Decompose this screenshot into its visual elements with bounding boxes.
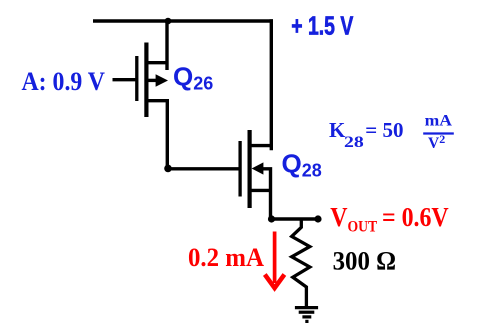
transistor Q28 (MOSFET) (240, 130, 271, 219)
node: junction of Q26 drain with rail (165, 18, 172, 25)
svg-text:mA: mA (425, 113, 453, 130)
node: corner junction dot at Q26 source / Q28 gate wire (164, 165, 172, 173)
wire: rail right side down to Q28 drain (270, 19, 273, 150)
ground symbol (295, 308, 318, 322)
label: K28 = 50 mA/V^2 transconductance parameter (329, 113, 454, 152)
wire: +1.5V supply rail (93, 19, 273, 22)
svg-text:300 Ω: 300 Ω (333, 247, 397, 276)
node: output node junction dot (268, 215, 275, 222)
current arrow: 0.2 mA flowing down (265, 232, 285, 289)
node: output terminal dot (314, 215, 321, 222)
wire: gate lead of Q26 from node A (113, 78, 136, 81)
svg-text:A: 0.9 V: A: 0.9 V (22, 67, 106, 96)
wire: to Q28 gate (168, 167, 239, 170)
svg-text:= 50: = 50 (365, 118, 403, 142)
svg-text:28: 28 (344, 134, 364, 151)
svg-text:0.2 mA: 0.2 mA (188, 243, 264, 272)
transistor Q26 (MOSFET) (137, 43, 168, 118)
wire: output node horizontal (272, 217, 319, 220)
resistor: 300 ohm load (292, 220, 310, 306)
svg-text:+ 1.5 V: + 1.5 V (291, 11, 353, 41)
wire: Q26 source down to gate node of Q28 (166, 99, 169, 169)
wire: Q26 drain up to rail (165, 19, 168, 70)
